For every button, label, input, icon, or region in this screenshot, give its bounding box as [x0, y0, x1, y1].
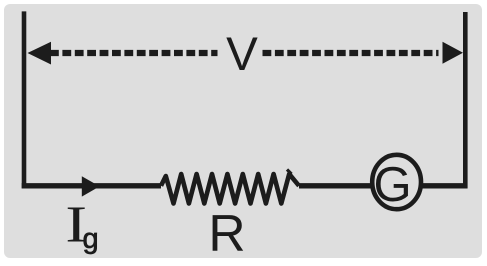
- wire: dashed V-span right segment: [263, 50, 439, 56]
- svg-text:g: g: [83, 223, 99, 255]
- arrowhead: current direction Ig on bottom wire: [82, 176, 100, 196]
- wire: galvanometer to right rail: [422, 183, 468, 188]
- svg-text:V: V: [226, 28, 258, 81]
- galvanometer G circle: [372, 155, 421, 209]
- arrowhead: V-span left arrow: [28, 42, 52, 65]
- svg-text:G: G: [373, 158, 411, 212]
- resistor end hook artifact: [287, 170, 292, 175]
- svg-text:R: R: [208, 204, 245, 262]
- wire: dashed V-span left segment: [50, 50, 218, 56]
- wire: resistor to galvanometer: [299, 183, 371, 188]
- wire: left vertical rail: [22, 11, 27, 188]
- wire: right vertical rail: [463, 12, 468, 188]
- arrowhead: V-span right arrow: [443, 42, 464, 64]
- wire: bottom wire from left rail to resistor: [22, 183, 161, 188]
- resistor R: [161, 174, 299, 204]
